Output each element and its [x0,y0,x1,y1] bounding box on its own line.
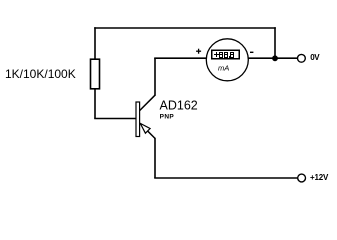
resistor R1 body [91,59,100,89]
ammeter display decimal point [229,56,230,58]
ammeter polarity minus mark [250,51,253,53]
svg-text:AD162: AD162 [160,98,198,112]
wire from collector to ammeter [154,57,206,59]
ammeter display digit 8 (3rd) [230,52,234,58]
ammeter display digit 8 (2nd) [224,52,228,58]
wire junction to 0V terminal [275,57,298,59]
wire top horizontal from resistor to junction [94,27,276,29]
wire ammeter to junction [248,57,275,59]
transistor Q1 emitter diagonal [140,124,155,139]
wire collector vertical up [154,58,156,96]
svg-text:PNP: PNP [160,114,175,121]
ammeter M1 display bezel [212,50,240,59]
wire top-left vertical into resistor [94,27,96,60]
svg-text:1K/10K/100K: 1K/10K/100K [5,67,76,81]
ammeter M1 circle [206,39,248,81]
terminal +12V circle [298,174,306,182]
wire top-right vertical down to junction [274,27,276,58]
transistor Q1 base bar [136,102,140,137]
wire bottom horizontal to +12V terminal [154,177,297,179]
svg-text:mA: mA [218,64,229,73]
wire emitter vertical down [154,138,156,178]
svg-text:0V: 0V [310,53,320,62]
transistor Q1 collector diagonal [140,95,155,110]
wire base horizontal to transistor [94,118,136,120]
ammeter display digit 8 (1st) [219,52,223,58]
transistor Q1 emitter arrow (PNP, pointing to base) [140,123,150,133]
ammeter display plus sign of +88.8 [214,54,219,55]
wire resistor bottom vertical [94,89,96,119]
svg-text:+12V: +12V [310,173,329,182]
junction node dot [272,55,278,61]
ammeter polarity plus mark [196,50,201,52]
terminal 0V circle [298,54,306,62]
